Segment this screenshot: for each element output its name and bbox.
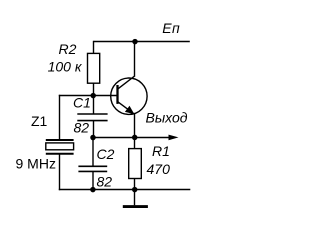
capacitor C1 xyxy=(77,96,107,138)
junction dot C1/C2 node xyxy=(90,135,96,141)
output arrow wire xyxy=(135,135,179,141)
svg-text:82: 82 xyxy=(74,120,90,136)
wire left vertical to crystal xyxy=(59,95,61,140)
junction dot on rail (collector tap) xyxy=(132,39,138,45)
junction dot ground node xyxy=(132,187,138,193)
junction dot output node xyxy=(132,135,138,141)
svg-text:C1: C1 xyxy=(73,95,91,111)
resistor R1 xyxy=(129,138,142,191)
svg-text:Выход: Выход xyxy=(146,110,188,126)
junction dot C2 bottom xyxy=(90,187,96,193)
wire mid horizontal xyxy=(93,137,135,139)
svg-text:R2: R2 xyxy=(59,41,77,57)
ground xyxy=(123,190,148,207)
crystal Z1 xyxy=(46,140,74,154)
svg-text:Еп: Еп xyxy=(162,20,180,36)
svg-text:9 MHz: 9 MHz xyxy=(16,156,56,172)
junction dot base node xyxy=(90,93,96,99)
base wire xyxy=(59,95,118,97)
svg-text:82: 82 xyxy=(97,174,113,190)
svg-text:470: 470 xyxy=(147,161,171,177)
wire collector vertical xyxy=(134,42,136,77)
resistor R2 xyxy=(88,41,100,96)
transistor VT1 xyxy=(111,76,147,115)
power rail Еп wire xyxy=(94,41,190,43)
svg-text:Z1: Z1 xyxy=(31,113,48,129)
bottom rail wire xyxy=(59,189,191,191)
svg-text:100 к: 100 к xyxy=(48,59,83,75)
svg-text:R1: R1 xyxy=(152,143,170,159)
svg-text:C2: C2 xyxy=(97,146,115,162)
wire emitter vertical xyxy=(134,114,136,138)
capacitor C2 xyxy=(78,138,107,191)
wire crystal bottom xyxy=(59,154,61,191)
